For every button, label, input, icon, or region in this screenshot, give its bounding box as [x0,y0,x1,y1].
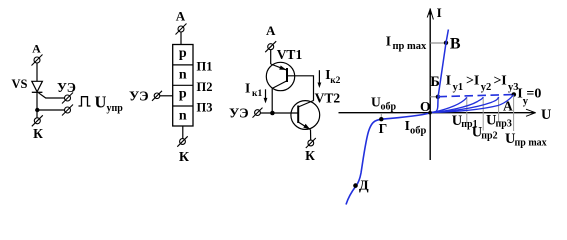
svg-text:А: А [176,9,186,24]
terminal A circle [32,55,43,66]
svg-text:А: А [266,23,276,38]
svg-text:I: I [501,74,506,89]
svg-text:=0: =0 [526,86,541,101]
terminal K circle pnpn [177,136,187,146]
gray marker line Upr2 [482,97,484,131]
point G dot [379,117,383,121]
transistor VT2 label [315,90,341,105]
svg-text:К: К [305,148,315,163]
wire cathode upper [36,92,38,118]
wire gate model [260,112,298,114]
svg-text:УЭ: УЭ [229,107,249,122]
svg-text:Б: Б [430,74,440,90]
current Ik1 label [245,81,262,99]
wire VT1 collector down [271,88,273,113]
node A label (thyristor symbol) [32,41,41,55]
svg-text:VT1: VT1 [277,47,303,62]
svg-text:обр: обр [381,101,397,112]
dashed switching line [439,95,514,97]
current Ik2 label [325,67,340,86]
svg-text:К: К [179,150,190,165]
current Ik1 arrow [264,89,268,103]
forward curve Iy0 [430,95,514,113]
label Iy1>Iy2>Iy3 [446,74,519,94]
thyristor cathode bar [32,91,43,93]
svg-text:U: U [95,93,107,112]
junction P3 label [197,101,213,115]
on-state branch curve [430,30,448,113]
node K label pnpn [179,150,190,165]
label Upr max [505,131,547,148]
svg-text:к1: к1 [252,89,262,99]
terminal UE circle [62,93,73,104]
svg-text:пр max: пр max [393,41,428,52]
transistor VT1 label [277,47,303,62]
I axis [427,8,433,160]
forward curve Iy1 [430,97,467,112]
junction P2 label [197,80,213,94]
svg-text:I: I [386,34,391,49]
wire VT2 emitter to K [310,130,312,141]
thyristor VS triangle [32,81,43,92]
wire anode pnpn [180,32,182,45]
svg-text:упр: упр [107,103,124,114]
point B label [430,74,440,90]
label Ipr max [386,34,427,52]
wire VT1 base to VT2 collector [287,76,314,101]
forward curve Iy3 [430,97,499,113]
layer n1 label [179,67,187,82]
point V label [450,35,461,52]
wire to lower terminal [37,109,64,111]
node UE label [57,80,76,95]
terminal UE circle pnpn [152,91,162,101]
junction dot [35,108,39,112]
label Uobr [371,94,397,112]
wire anode model [270,50,272,64]
breakover point dot Iy=0 [512,92,517,97]
terminal K circle model [306,138,316,148]
junction P1 label [197,60,213,74]
tick Ipr max [430,42,446,44]
svg-text:U: U [541,107,551,123]
svg-text:пр max: пр max [515,137,547,148]
terminal UE circle model [253,108,263,118]
svg-text:пр3: пр3 [496,119,512,130]
label Iobr [405,118,427,137]
origin junction dot [428,111,432,115]
point G label [379,121,388,136]
svg-text:p: p [179,46,187,61]
transistor VT2 [291,101,320,130]
terminal A circle pnpn [176,24,187,35]
svg-text:А: А [32,41,41,55]
wire cathode pnpn [182,126,184,139]
svg-text:пр2: пр2 [481,131,497,142]
node UE label model [229,107,249,122]
label Upr1 [452,113,478,130]
node K label [33,126,43,141]
svg-text:I: I [474,74,479,89]
svg-text:УЭ: УЭ [129,89,149,104]
layer p1 label [179,46,187,61]
I axis label [437,5,442,20]
origin O label [420,99,431,114]
node A label (two-transistor model) [266,23,276,38]
svg-text:А: А [503,99,513,114]
node UE label pnpn [129,89,149,104]
svg-text:у1: у1 [453,82,464,93]
layer p2 label [179,87,187,102]
svg-text:>: > [466,74,474,89]
control pulse symbol [79,97,91,106]
svg-text:Г: Г [379,121,388,136]
forward curve Iy2 [430,97,483,113]
node A label (pnpn structure) [176,9,186,24]
svg-text:у2: у2 [481,82,492,93]
U axis label [541,107,551,123]
svg-text:I: I [437,5,442,20]
svg-text:U: U [371,94,381,109]
svg-text:I: I [446,74,451,89]
svg-text:П1: П1 [197,60,213,74]
svg-text:I: I [245,81,250,96]
thyristor VS label [12,77,28,91]
terminal A circle model [265,41,276,52]
label Upr3 [486,112,512,129]
node K label model [305,148,315,163]
current Ik2 arrow [318,70,322,88]
point D dot [353,183,358,188]
label U_upr [95,93,124,114]
svg-text:П2: П2 [197,80,213,94]
svg-text:В: В [450,35,461,52]
pnpn structure rectangle [173,45,193,127]
svg-text:обр: обр [410,126,427,137]
layer n2 label [179,108,187,123]
svg-text:n: n [179,108,187,123]
wire gate pnpn [160,95,173,97]
reverse branch curve [346,113,430,205]
gate lead wire [39,93,65,98]
svg-text:VT2: VT2 [315,90,341,105]
label Upr2 [472,124,498,141]
point B dot [436,95,440,99]
svg-text:П3: П3 [197,101,213,115]
svg-text:p: p [179,87,187,102]
point A label [503,99,513,114]
junction dot model [270,111,275,116]
label Iy=0 [517,86,541,107]
gray marker line Upr max [513,95,515,131]
svg-text:к2: к2 [330,76,340,86]
gray marker line Uobr [380,113,382,119]
U axis [339,109,537,116]
svg-text:VS: VS [12,77,28,91]
point D label [359,178,369,193]
point B dot (V) [444,41,448,45]
terminal K circle [32,115,43,126]
svg-text:К: К [33,126,43,141]
gray marker line Upr1 [466,97,468,123]
svg-text:n: n [179,67,187,82]
lower terminal circle [62,105,73,116]
tick B level [430,96,438,98]
svg-text:Д: Д [359,178,369,193]
transistor VT1 [266,62,294,90]
gray marker line Upr3 [498,97,500,123]
wire anode [36,63,38,81]
